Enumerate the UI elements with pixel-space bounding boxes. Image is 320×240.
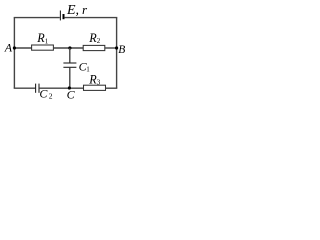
svg-text:B: B [118, 44, 125, 56]
node B [115, 46, 118, 49]
wire branch junction down to C1 [69, 48, 71, 63]
resistor R1 [32, 45, 54, 50]
node A [13, 46, 16, 49]
svg-text:E,: E, [66, 3, 79, 18]
node junction R1-R2 [68, 46, 71, 49]
wire R3 to bottom-right corner [106, 87, 118, 89]
node C [68, 86, 71, 89]
svg-text:2: 2 [49, 92, 53, 101]
wire top-left segment [14, 17, 60, 19]
svg-text:3: 3 [97, 79, 101, 87]
svg-text:A: A [4, 40, 13, 54]
svg-text:2: 2 [97, 37, 101, 45]
capacitor C2 left plate [35, 84, 37, 93]
svg-text:1: 1 [45, 37, 49, 45]
resistor R3 [84, 85, 106, 90]
wire right side [116, 18, 118, 89]
wire R2 to B [105, 47, 118, 49]
wire C2 to R3 box through node C [39, 87, 83, 89]
svg-text:C: C [67, 87, 76, 101]
capacitor C1 top plate [63, 62, 76, 64]
wire top-right segment [65, 17, 118, 19]
battery E,r long plate [59, 11, 61, 21]
battery E,r short plate [63, 14, 65, 19]
wire middle A to R1 [14, 47, 32, 49]
wire bottom-left to C2 [14, 87, 36, 89]
wire left side [13, 18, 15, 89]
capacitor C1 bottom plate [63, 66, 76, 68]
wire C1 down to node C [69, 67, 71, 88]
capacitor C2 right plate [38, 84, 40, 93]
resistor R2 [83, 45, 105, 50]
wire R1 to junction to R2 [53, 47, 83, 49]
